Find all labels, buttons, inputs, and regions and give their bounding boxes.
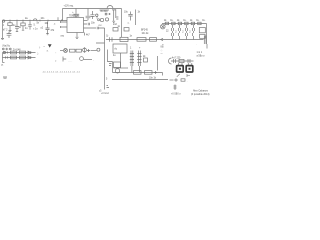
svg-text:1k.: 1k.: [177, 20, 180, 22]
svg-text:1k.: 1k.: [196, 20, 199, 22]
node end dot: [162, 73, 164, 76]
wire U1 pin bottom: [76, 33, 78, 37]
svg-text:Cr: Cr: [106, 34, 109, 37]
node junction ticks on bus: [10, 17, 58, 21]
svg-text:4n7 220: 4n7 220: [172, 57, 181, 59]
resistor D-row2 box1: [11, 56, 17, 59]
resistor chain R10: [165, 22, 168, 25]
curve left of blobs: [169, 58, 172, 64]
wire rail left riser: [62, 9, 64, 21]
node small circle left: [98, 19, 100, 21]
wire block left vertical: [112, 62, 114, 73]
wire top supply rail: [63, 8, 122, 10]
wire bottom stub: [170, 79, 174, 81]
component rect block left: [114, 62, 121, 68]
capacitor grid row 2: [172, 33, 193, 36]
node bottom-left mark: [3, 77, 7, 78]
diode D2: [28, 51, 31, 54]
wire block bottom: [113, 72, 163, 74]
svg-text:TDA7000: TDA7000: [69, 14, 79, 17]
resistor R21: [150, 38, 157, 42]
electrode pair 2: [137, 51, 141, 67]
marks below right blob: [187, 74, 190, 77]
capacitor grid row 1: [172, 28, 195, 31]
resistor chain R11: [172, 22, 175, 25]
transistor Q2: [105, 18, 108, 21]
wire second chain: [106, 39, 204, 41]
svg-text:10n 4k: 10n 4k: [142, 33, 150, 35]
transformer T2 core right (dark blob): [186, 66, 193, 72]
wire blob leads: [179, 63, 192, 66]
node dots left bottom: [107, 86, 110, 88]
capacitor C7 above blobs: [174, 59, 176, 63]
wire ladder stubs down: [132, 66, 140, 73]
transistor Q1: [100, 18, 103, 21]
battery BT1 plus: [174, 78, 178, 82]
resistor R30: [70, 49, 76, 52]
wire main input bus: [3, 20, 68, 22]
svg-text:|Na |Nc: |Na |Nc: [3, 46, 11, 48]
resistor chain R13: [185, 22, 188, 25]
capacitor C4 left: [7, 32, 12, 38]
node P mark bottom: [3, 62, 5, 64]
marks below left blob: [177, 74, 180, 77]
resistor chain R12: [178, 22, 181, 25]
resistor R2 with lead: [22, 22, 24, 24]
wire diode rows left vertical: [2, 53, 4, 63]
node plus mark end: [154, 71, 157, 74]
component small box mid block: [144, 58, 148, 62]
node tick right margin: [206, 44, 208, 49]
wire right vertical bus: [206, 24, 208, 45]
svg-text:+0 SB0 o: +0 SB0 o: [171, 94, 181, 96]
capacitor C10 drop: [15, 22, 19, 32]
svg-text:1k.: 1k.: [190, 20, 193, 22]
connector right small box 2: [200, 34, 206, 38]
wire left drop to block: [108, 50, 113, 62]
wire rowA right: [91, 50, 97, 52]
resistor R20: [137, 38, 146, 42]
resistor R1 with lead and ground: [9, 22, 11, 23]
electrode pair 1: [130, 51, 134, 67]
svg-text:a 5Bo o: a 5Bo o: [197, 55, 206, 57]
component squiggle bottom: [181, 79, 185, 81]
wire short seg above transistors: [100, 9, 110, 11]
capacitor C8 above blobs: [188, 59, 190, 63]
marker dark triangle: [48, 44, 52, 47]
wire rowA lead: [60, 50, 63, 52]
node arrow left end chain2: [161, 38, 164, 40]
wire top-right chain: [162, 23, 207, 25]
node plus mark: [109, 13, 111, 15]
connector right bars: [204, 36, 206, 45]
node rail jumper arc: [107, 6, 116, 19]
node circle rowB: [80, 57, 84, 61]
svg-text:1k.: 1k.: [170, 20, 173, 22]
wire diode row 2: [3, 57, 36, 59]
component box mid 2: [124, 28, 129, 31]
svg-text:+0 Gnd: +0 Gnd: [101, 93, 109, 95]
transistor Q3: [115, 69, 119, 73]
resistor R23: [145, 71, 153, 75]
wire mid right vertical bridge: [104, 50, 106, 67]
svg-text:1k.: 1k.: [183, 20, 186, 22]
node input terminal J1: [2, 20, 4, 22]
ground U1: [76, 37, 79, 38]
resistor D-row2 box2: [20, 56, 26, 59]
svg-text:1k.: 1k.: [202, 20, 205, 22]
wire bottom long line: [112, 79, 168, 81]
resistor R31: [76, 49, 82, 52]
resistor D-row1 box2: [20, 51, 26, 54]
capacitor C11 drop: [28, 22, 32, 30]
wire left rail drop: [2, 21, 4, 39]
inductor L1 hump on bus: [34, 19, 37, 21]
wire vertical with ground mid: [112, 10, 116, 23]
wire block center vertical: [120, 53, 122, 68]
wire U1 pin bottom 2: [84, 33, 86, 36]
svg-text:0w.: 0w.: [161, 47, 165, 49]
svg-text:.1.1 .1.1 .1.1 .1.1 .1.1 .1.1: .1.1 .1.1 .1.1 .1.1 .1.1 .1.1 .1.1 .1.1 …: [42, 72, 80, 74]
node terminal row1: [3, 51, 5, 53]
relay box K1: [120, 37, 128, 41]
wire U1 pin right 3: [84, 27, 105, 29]
svg-text:BF245: BF245: [141, 29, 148, 31]
resistor D-row1 box1: [11, 51, 17, 54]
component box mid 1: [113, 28, 118, 31]
wire rowB: [84, 59, 92, 61]
connector right small box: [199, 28, 205, 33]
wire bottom left vertical: [104, 66, 106, 90]
transformer T1 core left (dark blob): [177, 66, 184, 72]
node S terminal: [96, 14, 98, 16]
node row2 lead marks: [6, 56, 8, 58]
IC U1 box: [67, 18, 84, 33]
svg-text:1 in 1: 1 in 1: [197, 52, 203, 54]
node mark above SB text: [174, 85, 177, 91]
node plus rowA: [87, 49, 90, 52]
wire row above transformers: [171, 60, 194, 62]
wire diode row 1: [3, 52, 36, 54]
svg-text:+12V reg.: +12V reg.: [64, 4, 74, 7]
lamp DS1: [161, 24, 166, 29]
svg-text:k7 2: k7 2: [3, 29, 8, 31]
node box above transistors: [105, 13, 107, 15]
capacitor rowB mark: [63, 57, 66, 62]
resistor R24 above blobs: [179, 59, 184, 62]
lamp DS2: [64, 49, 68, 53]
svg-text:BC548: BC548: [101, 11, 109, 13]
resistor chain R15: [198, 22, 201, 25]
capacitor C6: [110, 37, 113, 41]
wire mid vertical B: [135, 10, 137, 26]
capacitor C3 decoupling: [90, 11, 94, 19]
node marks block left: [109, 64, 112, 66]
node marks right of transistors: [116, 17, 118, 19]
box above block: [113, 44, 127, 53]
svg-text:(F possible 2014): (F possible 2014): [191, 93, 210, 96]
node row1 lead marks: [6, 51, 8, 53]
svg-text:o.c.: o.c.: [99, 25, 103, 27]
node circle o rowA: [97, 48, 100, 51]
capacitor grid column stubs: [173, 25, 194, 40]
capacitor C5 mid: [128, 12, 132, 21]
svg-text:10n 1k: 10n 1k: [149, 77, 157, 79]
wire block right vertical: [157, 56, 159, 71]
resistor chain R14: [191, 22, 194, 25]
resistor R22: [134, 71, 142, 75]
svg-text:. . . .: . . . .: [68, 60, 73, 62]
svg-text:r: 1n: r: 1n: [33, 27, 38, 30]
ground left: [1, 39, 4, 40]
node circle phi: [83, 48, 87, 52]
node connector row o-+-o: [2, 48, 4, 50]
wire U1 pin left 1: [61, 21, 68, 23]
wire block top connect: [114, 67, 129, 69]
capacitor C1 electrolytic at rail: [73, 9, 79, 18]
wire U1 pin left 2: [61, 26, 68, 28]
wire corner right of IC: [96, 28, 105, 50]
wire U1 pin right 2: [84, 23, 90, 25]
wire U1 pin right 1: [84, 20, 88, 22]
wire mid vertical A: [121, 9, 123, 38]
capacitor C2 decoupling: [86, 9, 91, 21]
svg-text:1k.: 1k.: [164, 20, 167, 22]
capacitor C12 drop right: [46, 22, 50, 35]
diode D4: [28, 56, 31, 59]
